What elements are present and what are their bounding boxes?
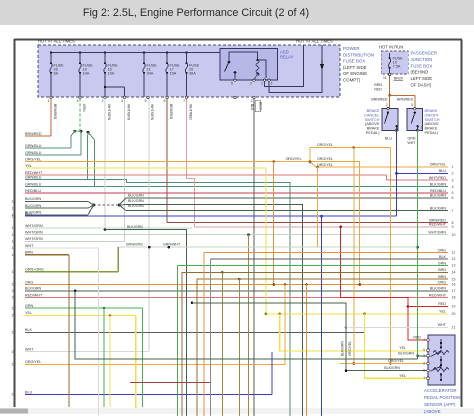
svg-text:15A: 15A xyxy=(170,72,177,76)
svg-text:BRN/RED: BRN/RED xyxy=(25,132,42,136)
svg-text:(ABOVE: (ABOVE xyxy=(365,122,380,126)
svg-text:BRN/RED: BRN/RED xyxy=(397,98,414,102)
svg-text:GRN: GRN xyxy=(438,261,447,265)
svg-text:1: 1 xyxy=(48,99,50,103)
svg-text:SWITCH: SWITCH xyxy=(365,118,380,122)
svg-text:10: 10 xyxy=(12,200,16,204)
svg-text:DISTRIBUTION: DISTRIBUTION xyxy=(343,52,374,57)
svg-text:ACCELERATOR: ACCELERATOR xyxy=(424,388,457,393)
svg-text:BRN/RED: BRN/RED xyxy=(53,104,57,120)
svg-text:ORG/YEL: ORG/YEL xyxy=(317,143,333,147)
svg-text:5: 5 xyxy=(231,82,233,86)
svg-text:(LEFT SIDE: (LEFT SIDE xyxy=(343,65,367,70)
svg-text:ORG/YEL: ORG/YEL xyxy=(286,157,302,161)
svg-text:BLK/GRN: BLK/GRN xyxy=(25,204,42,208)
svg-text:1: 1 xyxy=(421,126,423,130)
svg-text:WHT: WHT xyxy=(438,323,447,327)
svg-text:BLK: BLK xyxy=(439,255,447,259)
svg-text:5: 5 xyxy=(423,348,425,352)
svg-text:WHT: WHT xyxy=(25,348,34,352)
svg-text:BR20: BR20 xyxy=(394,77,403,81)
svg-text:BLK/GRN: BLK/GRN xyxy=(127,225,143,229)
svg-text:ORG/YEL: ORG/YEL xyxy=(25,157,41,161)
svg-text:WHT: WHT xyxy=(407,141,416,145)
svg-text:2: 2 xyxy=(102,99,104,103)
svg-text:BRAKE: BRAKE xyxy=(425,109,438,113)
svg-text:Fig 2: 2.5L, Engine Performanc: Fig 2: 2.5L, Engine Performance Circuit … xyxy=(83,7,309,19)
svg-text:10: 10 xyxy=(452,233,456,237)
svg-text:BRAKE: BRAKE xyxy=(367,109,380,113)
svg-text:5A: 5A xyxy=(54,72,59,76)
svg-text:2: 2 xyxy=(423,362,425,366)
svg-text:5: 5 xyxy=(452,191,454,195)
svg-text:WHT/GRN: WHT/GRN xyxy=(25,237,43,241)
svg-text:8: 8 xyxy=(14,185,16,189)
svg-text:27: 27 xyxy=(12,363,16,367)
svg-text:RED/BLU: RED/BLU xyxy=(25,189,41,193)
svg-text:4: 4 xyxy=(14,160,16,164)
svg-text:GRN/BLU: GRN/BLU xyxy=(25,144,42,148)
svg-text:3: 3 xyxy=(423,354,425,358)
svg-text:1: 1 xyxy=(397,126,399,130)
svg-text:28: 28 xyxy=(12,393,16,397)
svg-text:RED/WHT: RED/WHT xyxy=(25,171,43,175)
svg-text:GRN/BLU: GRN/BLU xyxy=(25,182,42,186)
svg-text:1: 1 xyxy=(14,134,16,138)
svg-text:PEDAL POSITION: PEDAL POSITION xyxy=(424,395,460,400)
svg-text:JUNCTION: JUNCTION xyxy=(411,57,433,62)
svg-text:BLK: BLK xyxy=(250,104,254,111)
svg-text:ORG/YEL: ORG/YEL xyxy=(430,163,446,167)
svg-text:15A: 15A xyxy=(108,72,115,76)
svg-text:BRN: BRN xyxy=(374,83,382,87)
svg-text:OF DASH): OF DASH) xyxy=(411,83,432,88)
svg-text:4: 4 xyxy=(423,338,425,342)
svg-text:19: 19 xyxy=(452,305,456,309)
svg-text:17: 17 xyxy=(12,246,16,250)
svg-text:ORG/YEL: ORG/YEL xyxy=(25,360,41,364)
svg-text:YEL: YEL xyxy=(399,374,406,378)
svg-text:BLK/GRN: BLK/GRN xyxy=(430,206,447,210)
svg-text:BLK: BLK xyxy=(25,328,33,332)
svg-text:WHT/GRN: WHT/GRN xyxy=(127,104,131,121)
svg-text:ORG: ORG xyxy=(25,280,34,284)
svg-text:SWITCH: SWITCH xyxy=(425,118,440,122)
svg-text:BLK/GRN: BLK/GRN xyxy=(25,287,42,291)
svg-text:BLK/GRN: BLK/GRN xyxy=(25,197,42,201)
svg-text:18: 18 xyxy=(452,296,456,300)
svg-text:BK20: BK20 xyxy=(259,102,263,110)
svg-text:5: 5 xyxy=(145,99,147,103)
svg-text:GRN: GRN xyxy=(25,304,34,308)
svg-text:7.5A: 7.5A xyxy=(393,65,401,69)
svg-text:BRAKE: BRAKE xyxy=(425,127,438,131)
svg-text:GRN/BLU: GRN/BLU xyxy=(25,151,42,155)
svg-text:WHT/GRN: WHT/GRN xyxy=(25,231,43,235)
svg-text:2: 2 xyxy=(251,99,253,103)
svg-text:22: 22 xyxy=(12,296,16,300)
svg-text:11: 11 xyxy=(12,206,16,210)
svg-text:WHT/GRN: WHT/GRN xyxy=(107,104,111,121)
svg-text:30A: 30A xyxy=(189,72,196,76)
svg-text:WHT/GRN: WHT/GRN xyxy=(150,104,154,121)
svg-text:16: 16 xyxy=(452,283,456,287)
svg-text:GRN/BLU: GRN/BLU xyxy=(25,175,42,179)
svg-text:18: 18 xyxy=(12,253,16,257)
svg-text:2: 2 xyxy=(14,146,16,150)
svg-text:14: 14 xyxy=(452,271,456,275)
svg-text:3: 3 xyxy=(14,153,16,157)
svg-text:RED: RED xyxy=(413,336,421,340)
svg-text:RELAY: RELAY xyxy=(280,55,294,60)
svg-text:5: 5 xyxy=(14,166,16,170)
svg-text:2: 2 xyxy=(386,103,388,107)
svg-text:12: 12 xyxy=(452,257,456,261)
svg-text:2: 2 xyxy=(250,82,252,86)
svg-text:LEFT SIDE: LEFT SIDE xyxy=(411,76,433,81)
svg-text:BLK/GRN: BLK/GRN xyxy=(430,194,447,198)
svg-text:BRN: BRN xyxy=(438,275,446,279)
svg-text:YEL: YEL xyxy=(399,346,406,350)
svg-text:(BEHIND: (BEHIND xyxy=(411,70,429,75)
svg-text:BLK/GRN: BLK/GRN xyxy=(430,182,447,186)
svg-text:3: 3 xyxy=(452,178,454,182)
svg-text:23: 23 xyxy=(12,306,16,310)
svg-text:21: 21 xyxy=(12,289,16,293)
svg-text:6: 6 xyxy=(423,369,425,373)
svg-text:(ABOVE: (ABOVE xyxy=(425,122,440,126)
svg-text:BLU: BLU xyxy=(439,169,447,173)
svg-text:ON/OFF: ON/OFF xyxy=(425,113,440,117)
svg-text:BLK/GRN: BLK/GRN xyxy=(398,351,414,355)
svg-text:14: 14 xyxy=(12,226,16,230)
svg-text:9: 9 xyxy=(14,191,16,195)
svg-text:1: 1 xyxy=(452,165,454,169)
svg-text:RED: RED xyxy=(438,302,446,306)
svg-text:BRN: BRN xyxy=(25,251,33,255)
svg-text:24: 24 xyxy=(12,314,16,318)
svg-text:15: 15 xyxy=(12,233,16,237)
svg-text:7: 7 xyxy=(452,209,454,213)
svg-text:7: 7 xyxy=(14,178,16,182)
svg-text:11: 11 xyxy=(452,251,456,255)
svg-text:BLK/GRN: BLK/GRN xyxy=(128,194,144,198)
svg-text:SENSOR (APP): SENSOR (APP) xyxy=(424,402,456,407)
svg-text:4: 4 xyxy=(452,185,454,189)
svg-text:RED/BLU: RED/BLU xyxy=(430,189,446,193)
svg-text:20: 20 xyxy=(12,283,16,287)
svg-text:BRN/RED: BRN/RED xyxy=(169,104,173,120)
svg-text:HOT IN RUN: HOT IN RUN xyxy=(379,45,403,50)
svg-text:3: 3 xyxy=(271,82,273,86)
svg-text:6: 6 xyxy=(164,99,166,103)
svg-text:BLU: BLU xyxy=(25,212,33,216)
svg-text:BLK/GRN: BLK/GRN xyxy=(430,287,447,291)
svg-text:WHT/RED: WHT/RED xyxy=(189,104,193,120)
svg-text:ORG/YEL: ORG/YEL xyxy=(348,341,352,356)
svg-text:6: 6 xyxy=(14,173,16,177)
svg-text:RED/WHT: RED/WHT xyxy=(25,293,43,297)
svg-text:26: 26 xyxy=(12,350,16,354)
svg-text:15: 15 xyxy=(452,277,456,281)
svg-text:RED/WHT: RED/WHT xyxy=(429,223,447,227)
svg-text:HOT AT ALL TIMES: HOT AT ALL TIMES xyxy=(38,39,75,44)
svg-text:BRN: BRN xyxy=(438,268,446,272)
svg-text:WHT/GRN: WHT/GRN xyxy=(428,231,446,235)
svg-text:19: 19 xyxy=(12,270,16,274)
svg-text:(ABOVE: (ABOVE xyxy=(424,409,441,414)
svg-text:BLU: BLU xyxy=(25,390,33,394)
svg-text:BLK/GRN: BLK/GRN xyxy=(340,341,344,356)
svg-text:10A: 10A xyxy=(83,72,90,76)
svg-text:PASSENGER: PASSENGER xyxy=(411,51,437,56)
svg-text:11: 11 xyxy=(383,76,387,80)
svg-text:POWER: POWER xyxy=(343,46,360,51)
svg-text:OF ENGINE: OF ENGINE xyxy=(343,71,367,76)
svg-text:BRN/RED: BRN/RED xyxy=(371,98,388,102)
svg-text:YEL: YEL xyxy=(439,310,446,314)
svg-text:GRN/WHT: GRN/WHT xyxy=(163,243,181,247)
svg-text:4: 4 xyxy=(77,99,79,103)
svg-text:RED: RED xyxy=(374,88,382,92)
svg-text:BLK/GRN: BLK/GRN xyxy=(384,366,400,370)
svg-text:HOT AT ALL TIMES: HOT AT ALL TIMES xyxy=(296,39,333,44)
svg-text:9: 9 xyxy=(452,225,454,229)
svg-text:21: 21 xyxy=(452,326,456,330)
svg-text:2: 2 xyxy=(452,172,454,176)
svg-text:1: 1 xyxy=(261,82,263,86)
svg-text:3: 3 xyxy=(411,103,413,107)
svg-text:30A: 30A xyxy=(147,72,154,76)
svg-text:CANCEL: CANCEL xyxy=(364,113,379,117)
svg-text:PEDAL): PEDAL) xyxy=(366,131,380,135)
svg-text:PEDAL): PEDAL) xyxy=(425,131,439,135)
svg-text:3: 3 xyxy=(121,99,123,103)
svg-text:BLK/GRN: BLK/GRN xyxy=(128,199,144,203)
svg-text:25: 25 xyxy=(12,331,16,335)
svg-text:7: 7 xyxy=(183,99,185,103)
svg-text:GRN: GRN xyxy=(408,137,416,141)
svg-text:20: 20 xyxy=(452,312,456,316)
svg-text:13: 13 xyxy=(452,264,456,268)
svg-text:ORG/YEL: ORG/YEL xyxy=(317,157,333,161)
svg-text:ORG: ORG xyxy=(438,280,447,284)
svg-text:YEL: YEL xyxy=(25,311,32,315)
svg-text:GRN/ORG: GRN/ORG xyxy=(126,243,143,247)
svg-text:BLK/GRN: BLK/GRN xyxy=(128,204,144,208)
svg-text:6: 6 xyxy=(452,196,454,200)
svg-text:1: 1 xyxy=(423,376,425,380)
svg-text:FUSE BOX: FUSE BOX xyxy=(343,59,365,64)
svg-text:WHT/RED: WHT/RED xyxy=(429,176,447,180)
svg-text:BRAKE: BRAKE xyxy=(367,127,380,131)
svg-text:ORG: ORG xyxy=(438,248,447,252)
svg-text:17: 17 xyxy=(452,289,456,293)
svg-text:WHT/GRN: WHT/GRN xyxy=(25,224,43,228)
svg-text:GRN+ORG: GRN+ORG xyxy=(25,268,44,272)
svg-text:COMPT): COMPT) xyxy=(343,78,361,83)
svg-text:RED/WHT: RED/WHT xyxy=(429,293,447,297)
svg-text:YEL: YEL xyxy=(25,164,32,168)
svg-text:GRN: GRN xyxy=(82,104,86,112)
svg-text:FUSE BOX: FUSE BOX xyxy=(411,63,433,68)
svg-text:BLU: BLU xyxy=(385,137,392,141)
svg-text:WHT: WHT xyxy=(25,244,34,248)
svg-text:16: 16 xyxy=(12,240,16,244)
svg-text:ORG/YEL: ORG/YEL xyxy=(388,359,404,363)
svg-text:13: 13 xyxy=(12,214,16,218)
